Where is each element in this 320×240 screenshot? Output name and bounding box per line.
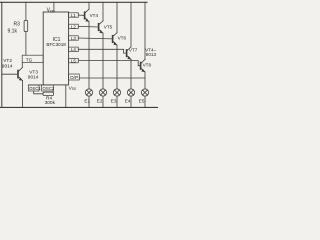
wire VT5 collector <box>102 2 104 21</box>
svg-text:L3: L3 <box>71 36 77 41</box>
svg-text:OSC1: OSC1 <box>29 86 41 91</box>
wire L2 to VT5 base <box>78 25 98 28</box>
wire VT3 emitter to bottom rail <box>22 81 24 108</box>
wire R3 bottom lead to TG pin <box>25 32 27 56</box>
wire R4 to OSC2 <box>52 91 54 92</box>
svg-text:E5: E5 <box>139 98 145 103</box>
svg-text:VT6: VT6 <box>118 36 127 41</box>
wire VT6 collector <box>116 2 118 32</box>
svg-text:9014: 9014 <box>2 64 13 70</box>
svg-text:E1: E1 <box>84 98 90 103</box>
svg-text:VT5: VT5 <box>104 24 113 29</box>
wire VT7 collector <box>130 2 132 47</box>
pin box L3 <box>69 36 79 40</box>
pin box L2 <box>69 24 79 28</box>
pin box L4 <box>69 47 79 51</box>
pin box TG <box>22 55 43 62</box>
wire VSS pin lead <box>65 85 67 108</box>
pin box OSC2 <box>42 85 54 91</box>
svg-text:L4: L4 <box>71 47 77 52</box>
svg-text:L2: L2 <box>71 24 77 29</box>
wire R3 top lead <box>25 2 27 20</box>
transistor VT4 <box>85 9 90 22</box>
wire VT4 emitter to lamp E1 <box>88 22 90 89</box>
wire VT8 collector <box>144 2 146 59</box>
svg-text:L5: L5 <box>71 59 77 64</box>
wire L4 to VT7 base <box>78 49 126 53</box>
wire L1 to VT4 base <box>78 14 84 16</box>
lamp E3 <box>113 89 120 108</box>
svg-text:VDD: VDD <box>47 8 56 14</box>
wire VT6 emitter to lamp E3 <box>116 45 118 89</box>
wire VT7 emitter to lamp E4 <box>130 59 132 89</box>
svg-text:9014: 9014 <box>28 74 39 80</box>
svg-text:R3: R3 <box>14 22 21 28</box>
svg-text:L1: L1 <box>71 13 77 18</box>
pin box OSC1 <box>28 85 39 91</box>
wire VT8 emitter to lamp E5 <box>144 72 146 89</box>
lamp E2 <box>99 89 106 108</box>
pin box L5 <box>69 58 79 62</box>
wire left rail <box>1 2 3 107</box>
svg-text:TG: TG <box>26 58 33 63</box>
svg-text:VT2: VT2 <box>3 58 12 64</box>
pin box O/P <box>69 74 80 80</box>
resistor R3 <box>24 20 28 31</box>
svg-text:VT4: VT4 <box>90 13 99 18</box>
svg-text:E2: E2 <box>97 98 103 103</box>
wire VDD pin lead <box>53 2 55 12</box>
wire VT3 collector to TG <box>21 63 23 68</box>
svg-text:300k: 300k <box>45 100 56 106</box>
transistor VT7 <box>127 47 132 60</box>
lamp E5 <box>141 89 148 108</box>
wire bottom supply rail <box>0 106 158 108</box>
op-amp IC1 body <box>43 12 68 85</box>
lamp E1 <box>85 89 92 108</box>
transistor VT5 <box>99 21 104 34</box>
wire VT4 collector <box>88 2 90 9</box>
svg-text:E4: E4 <box>125 98 131 103</box>
transistor VT6 <box>113 33 118 46</box>
svg-text:9013: 9013 <box>146 52 157 57</box>
svg-text:VT7: VT7 <box>129 48 138 53</box>
wire O/P to lamp E5 node <box>79 77 145 79</box>
resistor R4 <box>43 92 54 95</box>
svg-text:BFC3018: BFC3018 <box>46 42 66 47</box>
svg-text:OSC2: OSC2 <box>43 86 55 91</box>
svg-text:9.1k: 9.1k <box>8 29 18 35</box>
svg-text:O/P: O/P <box>70 75 78 80</box>
transistor VT3 <box>2 68 23 81</box>
pin box L1 <box>69 13 79 17</box>
svg-text:VSS: VSS <box>69 85 76 91</box>
wire VT5 emitter to lamp E2 <box>102 33 104 89</box>
wire IC bottom edge extension <box>28 84 43 86</box>
svg-text:E3: E3 <box>111 98 117 103</box>
wire L3 to VT6 base <box>78 37 112 40</box>
wire top supply rail <box>0 1 147 3</box>
wire L5 to VT8 base <box>78 61 140 66</box>
svg-text:VT8: VT8 <box>143 63 152 68</box>
transistor VT8 <box>141 60 146 73</box>
wire OSC1 to R4 <box>34 91 43 94</box>
lamp E4 <box>127 89 134 108</box>
